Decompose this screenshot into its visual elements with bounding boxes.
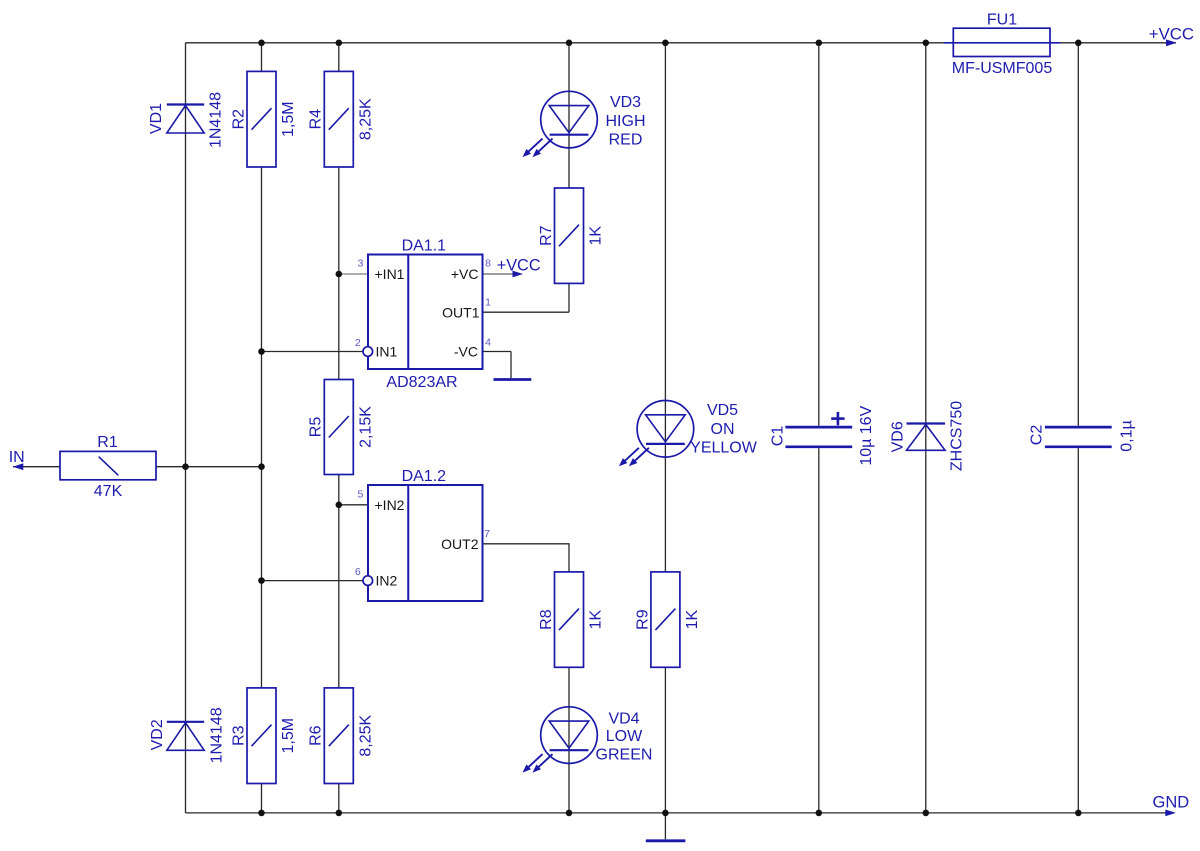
svg-text:VD5: VD5 — [707, 402, 738, 419]
svg-text:3: 3 — [357, 258, 363, 270]
label VD3 — [606, 94, 646, 149]
svg-text:+IN1: +IN1 — [375, 266, 405, 282]
pin 4 -VC — [454, 336, 491, 359]
capacitor C2 0,1u — [1029, 420, 1136, 451]
svg-text:1K: 1K — [588, 609, 605, 629]
diode VD6 ZHCS750 — [889, 401, 965, 471]
svg-text:YELLOW: YELLOW — [690, 439, 758, 456]
svg-text:VD4: VD4 — [608, 710, 639, 727]
wire R8/VD4 branch — [483, 544, 570, 813]
svg-text:IN2: IN2 — [376, 573, 398, 589]
wire ground stub bottom — [664, 813, 666, 839]
svg-text:LOW: LOW — [606, 728, 643, 745]
svg-text:VD3: VD3 — [610, 94, 641, 111]
wire pin5 +IN2 — [339, 504, 368, 506]
svg-text:+VCC: +VCC — [497, 256, 541, 274]
pin 3 +IN1 — [357, 258, 404, 282]
wire R4/R5/R6 column — [338, 43, 340, 813]
svg-text:VD1: VD1 — [148, 103, 165, 134]
svg-text:OUT2: OUT2 — [441, 536, 479, 552]
svg-text:1N4148: 1N4148 — [207, 92, 224, 148]
svg-text:R9: R9 — [634, 609, 651, 630]
svg-text:8,25K: 8,25K — [358, 98, 375, 140]
svg-text:47K: 47K — [94, 483, 123, 500]
junction R1 node — [182, 463, 265, 470]
svg-text:IN1: IN1 — [376, 344, 398, 360]
junction dots bottom rail — [258, 810, 1081, 817]
svg-text:R5: R5 — [308, 417, 325, 438]
svg-text:C2: C2 — [1029, 425, 1046, 446]
svg-text:2,15K: 2,15K — [358, 406, 375, 448]
svg-text:2: 2 — [355, 337, 361, 349]
svg-text:1K: 1K — [684, 609, 701, 629]
svg-text:VD6: VD6 — [889, 421, 906, 452]
svg-text:+VC: +VC — [451, 266, 479, 282]
pin 5 +IN2 — [357, 488, 404, 512]
svg-text:1K: 1K — [588, 226, 605, 246]
wire pin4 -VC to ground — [483, 352, 512, 379]
svg-text:1,5M: 1,5M — [280, 101, 297, 137]
svg-text:ON: ON — [711, 421, 735, 438]
pin 6 IN2 — [355, 566, 398, 589]
svg-text:6: 6 — [355, 566, 361, 578]
svg-text:+IN2: +IN2 — [375, 497, 405, 513]
resistor R5 2,15K — [308, 380, 375, 475]
fuse FU1 MF-USMF005 — [944, 11, 1061, 77]
ground bottom — [646, 839, 686, 842]
svg-text:R2: R2 — [230, 109, 247, 130]
svg-text:10µ 16V: 10µ 16V — [858, 405, 875, 465]
node GND arrow — [1153, 794, 1190, 817]
wire pin3 +IN1 — [339, 273, 368, 275]
resistor R7 1K — [538, 188, 605, 283]
svg-text:HIGH: HIGH — [606, 113, 646, 130]
svg-text:1,5M: 1,5M — [280, 718, 297, 754]
LED VD5 ON YELLOW — [619, 401, 694, 467]
wire GND bottom rail — [186, 812, 1167, 814]
resistor R6 8,25K — [308, 688, 375, 784]
node +VCC arrow — [1149, 25, 1194, 47]
diode VD1 1N4148 — [148, 92, 225, 148]
pin 1 OUT1 — [442, 296, 491, 320]
svg-text:7: 7 — [484, 528, 490, 540]
svg-text:DA1.1: DA1.1 — [402, 237, 447, 254]
svg-text:DA1.2: DA1.2 — [402, 468, 447, 485]
wire R1 to columns — [156, 466, 261, 468]
svg-text:R1: R1 — [97, 434, 118, 451]
diode VD2 1N4148 — [149, 707, 226, 763]
junction pin3 node — [336, 271, 343, 278]
svg-text:R4: R4 — [308, 109, 325, 130]
wire +VCC top rail — [186, 42, 1177, 44]
junction pin2 node — [258, 348, 265, 355]
svg-text:FU1: FU1 — [987, 11, 1017, 28]
svg-text:ZHCS750: ZHCS750 — [948, 401, 965, 471]
wire left vertical branch — [185, 43, 187, 813]
wire pin6 IN2 — [262, 580, 363, 582]
wire VD3/R7 branch — [483, 43, 570, 312]
resistor R8 1K — [538, 572, 605, 667]
svg-text:4: 4 — [485, 336, 491, 348]
node +VCC at pin8 — [497, 256, 541, 277]
svg-text:R6: R6 — [308, 725, 325, 746]
svg-text:GND: GND — [1153, 794, 1190, 812]
junction pin5 node — [336, 502, 343, 509]
junction dots top rail — [258, 40, 1081, 47]
pin 2 IN1 — [355, 337, 398, 360]
wire IN lead — [13, 466, 60, 468]
resistor R4 8,25K — [308, 71, 375, 167]
svg-text:AD823AR: AD823AR — [386, 374, 457, 391]
pin 8 +VC — [451, 258, 491, 282]
wire R2/R3 column — [261, 43, 263, 813]
wire pin8 +VC stub — [483, 273, 518, 275]
LED VD3 HIGH RED — [523, 91, 598, 157]
svg-text:R3: R3 — [230, 725, 247, 746]
svg-text:5: 5 — [357, 488, 363, 500]
svg-text:MF-USMF005: MF-USMF005 — [952, 60, 1053, 77]
junction pin6 node — [258, 577, 265, 584]
LED VD4 LOW GREEN — [523, 707, 598, 773]
svg-text:8,25K: 8,25K — [358, 714, 375, 756]
resistor R1 47K — [60, 434, 156, 500]
op-amp U2 DA1.2 — [368, 468, 483, 601]
ground DA1.1 — [494, 378, 532, 381]
svg-text:VD2: VD2 — [149, 719, 166, 750]
svg-text:R7: R7 — [538, 225, 555, 246]
svg-text:IN: IN — [9, 449, 25, 466]
resistor R9 1K — [634, 572, 701, 667]
label VD4 — [596, 710, 653, 763]
svg-text:C1: C1 — [769, 426, 786, 447]
resistor R3 1,5M — [230, 688, 297, 784]
svg-text:1N4148: 1N4148 — [208, 707, 225, 763]
svg-text:+VCC: +VCC — [1149, 25, 1194, 44]
svg-text:OUT1: OUT1 — [442, 304, 480, 320]
svg-text:0,1µ: 0,1µ — [1119, 420, 1136, 451]
op-amp U1 DA1.1 — [368, 237, 483, 369]
pin 7 OUT2 — [441, 528, 490, 552]
wire VD6 column — [925, 43, 927, 813]
wire pin2 IN1 — [262, 351, 363, 353]
svg-text:R8: R8 — [538, 609, 555, 630]
wire C2 column — [1077, 43, 1079, 813]
label VD5 — [690, 402, 758, 456]
label AD823AR — [386, 374, 457, 391]
svg-text:8: 8 — [485, 258, 491, 270]
svg-text:RED: RED — [609, 132, 643, 149]
node IN — [9, 449, 25, 470]
wire VD5/R9 column — [664, 43, 666, 813]
svg-text:1: 1 — [485, 296, 491, 308]
resistor R2 1,5M — [230, 71, 297, 167]
capacitor C1 10u 16V — [769, 405, 875, 465]
svg-text:-VC: -VC — [454, 344, 478, 360]
svg-text:GREEN: GREEN — [596, 747, 653, 764]
wire C1 column — [818, 43, 820, 813]
